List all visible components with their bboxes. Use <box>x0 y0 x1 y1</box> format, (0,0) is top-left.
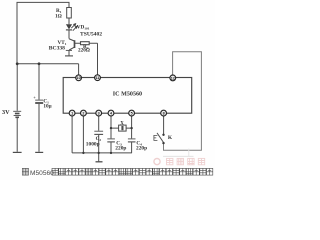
svg-text:10μ: 10μ <box>43 103 51 109</box>
svg-text:3V: 3V <box>2 109 10 116</box>
svg-text:1Ω: 1Ω <box>55 14 62 20</box>
svg-text:220Ω: 220Ω <box>78 47 90 53</box>
svg-text:BC338: BC338 <box>49 46 65 52</box>
svg-text:5: 5 <box>131 112 133 116</box>
svg-text:X: X <box>120 122 124 127</box>
svg-text:M50560: M50560 <box>30 170 54 177</box>
svg-text:TSU5402: TSU5402 <box>80 32 102 38</box>
svg-text:220p: 220p <box>136 145 147 151</box>
svg-text:220p: 220p <box>115 145 126 151</box>
svg-text:2: 2 <box>82 112 84 116</box>
svg-text:11: 11 <box>96 76 100 80</box>
svg-text:8: 8 <box>163 112 165 116</box>
svg-text:1: 1 <box>71 112 73 116</box>
svg-text:10: 10 <box>77 76 81 80</box>
svg-text:IC M50560: IC M50560 <box>113 91 142 97</box>
svg-text:1000p: 1000p <box>86 141 100 147</box>
svg-text:12: 12 <box>171 76 175 80</box>
svg-text:3: 3 <box>98 112 100 116</box>
svg-text:+: + <box>33 95 36 100</box>
